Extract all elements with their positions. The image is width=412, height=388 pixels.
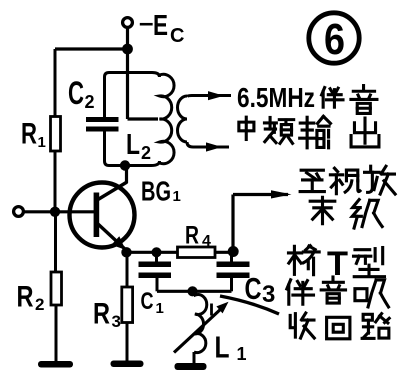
label to video amp line 2 — [310, 197, 382, 228]
ground symbol below L1 — [175, 363, 207, 370]
wire -Ec rail to R1 branch — [55, 47, 128, 50]
input terminal — [14, 207, 24, 217]
label bridge-T line 3 — [290, 313, 389, 339]
wire C3 top stub — [230, 252, 233, 262]
wire C1 top stub — [155, 252, 158, 261]
wire R3 bottom lead to ground — [126, 323, 129, 362]
svg-text:L: L — [126, 129, 140, 161]
wire C1 bottom stub — [156, 278, 159, 291]
svg-text:6: 6 — [324, 15, 345, 64]
label BG1 — [141, 176, 181, 207]
resistor R4 — [178, 247, 216, 258]
wire output arrow to video amp — [233, 190, 292, 198]
leader line from text to bridge network — [220, 296, 279, 314]
arrow through L1 — [174, 302, 229, 353]
wire collector lead — [125, 166, 128, 184]
label C2 — [68, 75, 95, 112]
svg-text:3: 3 — [112, 312, 121, 331]
label to video amp line 1 — [300, 166, 395, 194]
svg-text:L: L — [215, 330, 230, 365]
label R4 — [185, 222, 211, 251]
node base junction — [50, 207, 60, 217]
svg-text:E: E — [153, 10, 168, 42]
label 6.5MHz sound IF output line 1 — [237, 82, 377, 113]
wire tap into coil L2 — [128, 117, 159, 120]
wire -Ec junction down to L2 tap — [126, 49, 129, 119]
resistor R2 — [51, 272, 62, 305]
resistor R1 — [51, 117, 61, 152]
wire secondary bottom lead with arrow — [187, 142, 229, 152]
label sound IF output line 2 — [239, 116, 379, 147]
power terminal -Ec — [123, 7, 185, 47]
wire from -Ec terminal down to junction — [126, 27, 129, 49]
wire emitter rail — [127, 251, 234, 254]
capacitor C1 — [139, 262, 172, 279]
transistor BG1 — [70, 182, 135, 251]
wire tank bottom edge — [105, 132, 160, 166]
label C3 — [245, 271, 276, 308]
node L1 junction — [187, 286, 197, 296]
wire R2 bottom lead to ground — [55, 305, 58, 361]
label R3 — [93, 298, 121, 332]
inductor L2 primary winding — [160, 74, 175, 163]
svg-text:R: R — [185, 222, 199, 250]
node junction at -Ec rail — [122, 44, 133, 55]
svg-text:4: 4 — [202, 233, 211, 250]
label L1 — [215, 330, 247, 365]
svg-text:3: 3 — [262, 281, 275, 308]
node tank bottom junction — [120, 160, 130, 170]
svg-text:1: 1 — [237, 344, 247, 364]
label bridge-T line 2 — [287, 277, 389, 307]
wire R3 top lead — [126, 252, 129, 287]
svg-text:6.5MHz: 6.5MHz — [237, 82, 315, 113]
svg-text:BG: BG — [141, 176, 171, 207]
wire bridge bottom rail — [157, 290, 232, 293]
svg-text:1: 1 — [173, 188, 181, 205]
wire R1 bottom lead to base node — [54, 151, 57, 212]
wire secondary top lead with arrow — [187, 91, 231, 100]
wire R1 top lead — [54, 49, 57, 117]
label L2 — [126, 129, 151, 163]
label C1 — [141, 288, 164, 317]
resistor R3 — [122, 287, 133, 323]
svg-text:C: C — [141, 288, 154, 315]
inductor secondary winding — [178, 96, 188, 142]
capacitor C2 — [86, 117, 119, 132]
label R2 — [17, 281, 45, 315]
svg-text:R: R — [93, 298, 110, 331]
ground symbol below R2 — [38, 361, 73, 368]
wire R2 top lead — [54, 212, 57, 272]
svg-text:2: 2 — [141, 143, 151, 163]
svg-text:1: 1 — [38, 134, 46, 151]
node R4 right junction — [228, 246, 239, 257]
ground symbol below R3 — [111, 361, 144, 368]
svg-text:R: R — [17, 281, 34, 314]
wire C3 bottom stub — [230, 278, 233, 291]
label bridge-T line 1 — [288, 245, 384, 283]
wire up from R4 junction — [231, 195, 234, 252]
svg-text:T: T — [327, 245, 348, 283]
inductor L1 adjustable — [193, 291, 207, 363]
label R1 — [21, 118, 46, 152]
svg-text:2: 2 — [35, 295, 44, 314]
svg-text:2: 2 — [85, 92, 95, 112]
figure number badge 6 — [309, 13, 359, 64]
node emitter junction — [121, 247, 131, 257]
svg-text:–: – — [139, 7, 153, 37]
svg-text:1: 1 — [156, 300, 164, 317]
svg-text:R: R — [21, 118, 37, 151]
svg-text:C: C — [68, 75, 84, 111]
wire tick on L1 winding — [210, 304, 213, 316]
wire tank top edge — [105, 73, 160, 118]
wire input to transistor base — [24, 210, 96, 213]
svg-text:C: C — [170, 25, 184, 47]
capacitor C3 — [217, 262, 250, 279]
node C1 top junction — [152, 247, 162, 257]
